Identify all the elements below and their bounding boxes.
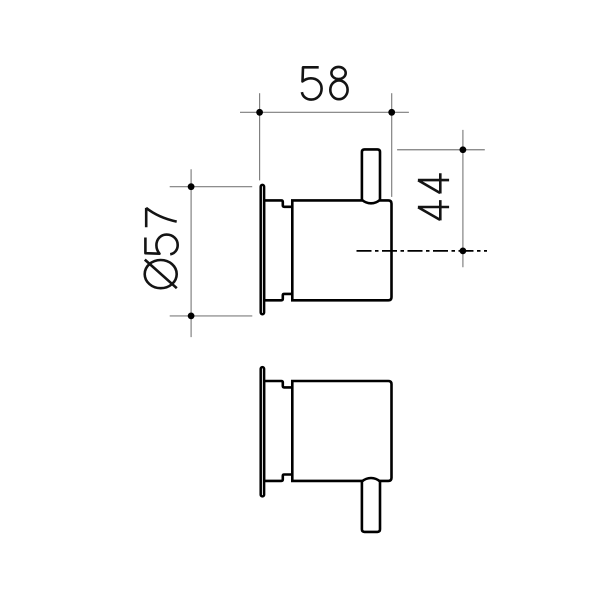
- dim 44 extension top: [397, 149, 485, 151]
- centerline through body: [357, 250, 488, 252]
- dim 44 line: [462, 130, 464, 267]
- top view: mixer side profile, handle up: [261, 149, 392, 314]
- bottom view: mixer side profile mirrored, handle down: [261, 367, 392, 532]
- dim D57 dot top: [188, 183, 195, 190]
- text 44 : digit 4 (upper): [418, 173, 449, 193]
- dim D57 extension bottom: [170, 315, 253, 317]
- text D57 : digit 5: [145, 235, 177, 255]
- text 44 : digit 4 (lower): [418, 200, 449, 220]
- dim 58 line: [240, 111, 409, 113]
- dim D57 extension top: [170, 186, 253, 188]
- dim 58 dot left: [256, 109, 263, 116]
- dim 58 dot right: [388, 109, 395, 116]
- text 58 : digit 5: [302, 67, 322, 99]
- dim 44 dot bottom: [460, 248, 467, 255]
- text D57 : diameter symbol: [145, 260, 177, 289]
- dim 58 extension right: [391, 93, 393, 197]
- dim D57 dot bottom: [188, 313, 195, 320]
- text 58 : digit 8: [330, 67, 347, 99]
- dim 44 dot top: [460, 146, 467, 153]
- text D57 : digit 7: [146, 208, 177, 227]
- dim D57 line: [190, 169, 192, 337]
- dim 58 extension left: [259, 93, 261, 180]
